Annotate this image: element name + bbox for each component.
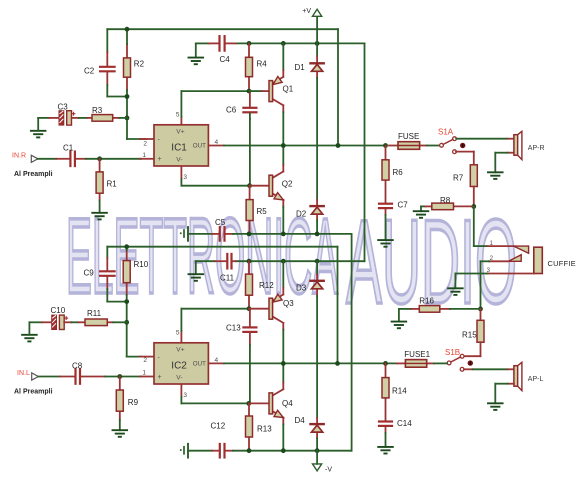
svg-text:R3: R3	[92, 106, 103, 115]
switch S1B	[445, 348, 473, 371]
svg-text:R10: R10	[134, 260, 149, 269]
wire IC2 V- to Q4 base node	[181, 397, 248, 404]
capacitor C7	[379, 200, 408, 215]
svg-text:C6: C6	[226, 105, 237, 114]
node R12 top	[247, 259, 252, 264]
node R15/R16/jack2	[478, 307, 483, 312]
ground (C4 ground)	[189, 43, 204, 64]
resistor R1	[96, 159, 117, 201]
node Q4 base / R13 / C13	[246, 401, 251, 406]
svg-text:Q2: Q2	[282, 180, 293, 189]
svg-text:IC2: IC2	[171, 361, 187, 372]
svg-text:AP-R: AP-R	[528, 145, 545, 152]
svg-text:C7: C7	[398, 200, 409, 209]
svg-text:C1: C1	[63, 143, 74, 152]
pin 3 (IC1 pin 3)	[181, 166, 187, 181]
svg-text:4: 4	[215, 357, 219, 364]
svg-text:2: 2	[143, 357, 147, 364]
capacitor C1	[56, 143, 86, 166]
node Q1 base / R4 / C6	[247, 89, 252, 94]
wire C6 bottom to Q2 base node	[249, 113, 251, 185]
svg-text:R14: R14	[392, 386, 407, 395]
wire C3 to ground	[38, 118, 49, 131]
transistor Q1	[269, 43, 294, 145]
node C2-R2 bottom	[125, 94, 130, 99]
polarity marker C5	[180, 227, 188, 241]
node OUT2-collectors	[281, 361, 286, 366]
svg-text:R13: R13	[257, 425, 272, 434]
svg-text:OUT: OUT	[193, 360, 206, 367]
wire R8 left	[421, 205, 426, 207]
headphone jack CUFFIE	[534, 247, 576, 273]
svg-text:C14: C14	[397, 419, 412, 428]
wire lower +V rail	[196, 260, 365, 262]
resistor R11	[78, 309, 113, 325]
svg-text:3: 3	[183, 392, 187, 399]
pin 4 (IC2 pin 4)	[208, 357, 224, 364]
wire IC1 V- to Q2 base node	[181, 179, 249, 186]
wire C3 left lead	[49, 117, 59, 119]
jack contact pin 1	[490, 241, 529, 253]
wire C2 bottom rail	[107, 96, 127, 98]
capacitor C9	[84, 247, 115, 302]
wire R16 left	[399, 308, 411, 310]
fuse FUSE1	[397, 350, 434, 367]
wire IC1 V+ to bias node	[181, 91, 249, 117]
transistor Q4	[269, 363, 293, 450]
ground (R8 ground)	[414, 206, 429, 217]
wire C10 to ground	[29, 322, 42, 335]
wire bottom rail left	[188, 450, 212, 452]
wire input to C1	[38, 158, 56, 160]
wire S1B to AP-L	[473, 368, 508, 370]
diode D1	[295, 56, 324, 78]
svg-text:Q4: Q4	[282, 399, 293, 408]
svg-text:C4: C4	[220, 55, 231, 64]
node OUT1-feedback	[336, 143, 341, 148]
svg-text:R15: R15	[462, 330, 477, 339]
wire S1A lower throw	[456, 152, 474, 165]
wire feedback rail (OUT to C2/R2)	[107, 29, 338, 145]
wire R2 top	[126, 29, 128, 44]
node R11 junction	[124, 320, 129, 325]
svg-text:V+: V+	[176, 128, 184, 135]
diode D4	[295, 416, 324, 438]
-V symbol	[313, 451, 333, 474]
wire Q2 base red	[250, 185, 269, 187]
ground (C10 ground)	[22, 335, 37, 342]
diode D3	[296, 274, 324, 296]
wire R11 to node	[113, 321, 126, 323]
svg-text:Al Preampli: Al Preampli	[14, 389, 53, 396]
wire C8 to pin1	[105, 376, 141, 378]
capacitor C6	[226, 91, 256, 114]
resistor R3	[87, 106, 119, 121]
ground (AP-R ground)	[488, 153, 503, 179]
wire C3-R3	[72, 117, 88, 119]
wire D3-D4	[316, 296, 318, 418]
wire AP-L bottom	[495, 383, 514, 385]
ground (jack ground)	[448, 274, 463, 295]
svg-text:5: 5	[176, 329, 180, 336]
svg-text:R1: R1	[107, 179, 118, 188]
node Q2 base / R5 / C6	[247, 183, 252, 188]
ground (R1 ground)	[92, 200, 107, 219]
wire jack pin 3 red	[487, 268, 534, 274]
op-amp IC1	[154, 125, 208, 166]
svg-text:Q1: Q1	[283, 85, 294, 94]
resistor R9	[116, 377, 138, 420]
resistor R14	[382, 363, 407, 420]
resistor R7	[453, 165, 477, 187]
ground (AP-L ground)	[488, 384, 503, 410]
svg-text:R11: R11	[87, 309, 102, 318]
wire AP-L top red	[508, 368, 514, 370]
capacitor C2	[84, 29, 115, 96]
wire mid rail left	[188, 233, 212, 235]
wire AP-R bottom	[495, 152, 514, 154]
wire D3 top	[316, 261, 318, 274]
wire C9 bottom rail	[107, 301, 126, 303]
speaker AP-L	[514, 362, 544, 390]
wire jack pin3 to ground	[455, 273, 487, 275]
ground (C11 ground)	[189, 261, 204, 281]
svg-text:V-: V-	[176, 374, 182, 381]
node D2 anode	[315, 232, 320, 237]
wire OUT2 line	[224, 362, 397, 364]
node rail2-R10	[124, 244, 129, 249]
switch S1A	[438, 128, 465, 154]
wire +V to D1	[316, 16, 318, 43]
wire R3 to node	[119, 117, 127, 119]
node rail1-R2	[125, 27, 130, 32]
svg-text:+: +	[158, 156, 162, 163]
svg-text:D1: D1	[295, 63, 306, 72]
capacitor C4	[209, 36, 236, 64]
svg-text:C2: C2	[84, 67, 95, 76]
svg-text:C9: C9	[84, 268, 95, 277]
wire C13 bottom red	[249, 333, 251, 345]
wire +V rail	[196, 43, 365, 261]
node D4 anode	[315, 448, 320, 453]
svg-text:C10: C10	[51, 306, 66, 315]
wire C13 bottom to Q4 base node	[249, 345, 251, 403]
pin 1 (IC2 pin 1)	[140, 370, 154, 377]
svg-text:V+: V+	[176, 346, 184, 353]
svg-text:1: 1	[142, 370, 146, 377]
svg-text:D4: D4	[295, 416, 306, 425]
node C5-R5	[247, 232, 252, 237]
svg-text:R5: R5	[257, 207, 268, 216]
wire Q4 base red	[249, 402, 269, 404]
wire R10 bottom	[126, 295, 128, 302]
svg-text:D3: D3	[296, 284, 307, 293]
wire Q1 base red	[262, 90, 269, 92]
wire C1 to pin1	[86, 158, 141, 160]
node R7/R8	[471, 204, 476, 209]
resistor R8	[426, 196, 474, 210]
resistor R12	[246, 261, 275, 309]
op-amp IC2	[154, 343, 208, 384]
wire R10 top	[126, 247, 128, 250]
jack contact pin 2	[490, 255, 522, 262]
wire D2 bottom	[316, 220, 318, 234]
svg-text:R2: R2	[134, 60, 145, 69]
node Q1 emitter top	[281, 41, 286, 46]
capacitor C8	[60, 361, 105, 383]
wire jack pin2 down	[481, 261, 490, 309]
wire D1 top	[316, 43, 318, 56]
svg-text:C8: C8	[72, 361, 83, 370]
node R1 junction	[97, 156, 102, 161]
svg-text:R16: R16	[419, 297, 434, 306]
wire C10 left lead	[42, 321, 52, 323]
pin 5 (IC2 pin 5)	[176, 329, 182, 342]
svg-text:R4: R4	[257, 60, 268, 69]
svg-text:C5: C5	[215, 218, 226, 227]
wire Q3 base red	[249, 308, 269, 310]
svg-text:IN.L: IN.L	[17, 370, 30, 377]
pin 1 (IC1 pin 1)	[140, 152, 154, 159]
+V symbol	[302, 8, 321, 16]
svg-text:R8: R8	[440, 196, 451, 205]
label Al Preampli (R)	[14, 171, 53, 178]
svg-text:C3: C3	[58, 102, 69, 111]
node C9-R10 bottom	[124, 299, 129, 304]
resistor R13	[246, 403, 273, 450]
wire D1-D2	[316, 78, 318, 200]
svg-text:-V: -V	[325, 467, 332, 474]
speaker AP-R	[514, 131, 545, 159]
svg-text:IC1: IC1	[171, 143, 187, 154]
pin 3 (IC2 pin 3)	[181, 384, 187, 399]
ground (C7 ground)	[378, 215, 393, 247]
wire R3 node vertical	[127, 97, 146, 140]
input terminal IN.R	[12, 152, 38, 162]
resistor R16	[411, 297, 450, 313]
wire feedback rail 2 (OUT2 to C9/R10)	[107, 247, 337, 364]
capacitor C14	[379, 419, 412, 433]
svg-text:Q3: Q3	[283, 299, 294, 308]
wire fuse to switch	[427, 145, 440, 147]
svg-text:+V: +V	[302, 8, 311, 15]
node OUT1-R6	[383, 143, 388, 148]
transistor Q3	[269, 261, 294, 363]
wire OUT1 line	[224, 145, 386, 147]
wire C10-R11	[64, 321, 78, 323]
node R9 junction	[117, 374, 122, 379]
resistor R15	[462, 309, 484, 342]
node Q3 base / R12 / C13	[247, 306, 252, 311]
watermark ELETTRONICA AUDIO	[66, 195, 517, 329]
svg-text:OUT: OUT	[193, 142, 206, 149]
wire S1B lower throw	[464, 368, 473, 370]
svg-text:S1B: S1B	[445, 348, 460, 357]
svg-text:R6: R6	[393, 168, 404, 177]
svg-text:1: 1	[142, 152, 146, 159]
resistor R2	[124, 44, 145, 90]
ground (C3 ground)	[31, 131, 46, 138]
resistor R4	[246, 43, 268, 91]
wire Q1 base	[249, 90, 262, 92]
svg-text:FUSE1: FUSE1	[404, 350, 430, 359]
svg-text:+: +	[158, 374, 162, 381]
svg-text:AP-L: AP-L	[528, 376, 544, 383]
wire R7 node to jack pin1	[474, 206, 488, 246]
svg-text:CUFFIE: CUFFIE	[548, 259, 577, 268]
svg-text:S1A: S1A	[438, 128, 454, 137]
capacitor C5	[212, 218, 233, 241]
node Q3 emitter top	[281, 259, 286, 264]
wire R15 bottom	[464, 342, 480, 356]
svg-text:V-: V-	[176, 156, 182, 163]
wire R16 to node	[450, 308, 481, 310]
node Q4 emitter bottom	[281, 448, 286, 453]
svg-text:IN.R: IN.R	[12, 152, 26, 159]
wire bottom rail	[233, 450, 352, 452]
polarity marker C12	[180, 444, 188, 458]
svg-text:FUSE: FUSE	[398, 132, 419, 141]
svg-text:C11: C11	[220, 273, 235, 282]
capacitor C11	[215, 254, 236, 282]
diode D2	[296, 200, 324, 221]
ground (C14 ground)	[378, 433, 393, 454]
resistor R5	[246, 186, 267, 234]
wire R7 bottom red	[473, 187, 475, 207]
wire mid rail	[233, 234, 352, 451]
node OUT2-R14	[383, 361, 388, 366]
svg-text:2: 2	[143, 140, 147, 147]
transistor Q2	[269, 146, 293, 234]
wire IC2 V+ to bias node	[181, 309, 249, 331]
wire input to C8	[38, 376, 60, 378]
capacitor C13	[226, 309, 256, 333]
resistor R6	[382, 146, 403, 204]
pin 4 (IC1 pin 4)	[208, 139, 224, 146]
svg-text:C12: C12	[211, 422, 226, 431]
node OUT1-collectors	[281, 143, 286, 148]
ground (R16 ground)	[392, 309, 407, 328]
wire R2 bottom	[126, 90, 128, 97]
input terminal IN.L	[17, 370, 38, 380]
svg-text:4: 4	[215, 139, 219, 146]
svg-text:R7: R7	[453, 174, 464, 183]
node C12-R13	[247, 448, 252, 453]
wire jack pin2 red	[489, 260, 509, 262]
node OUT2-feedback	[335, 361, 340, 366]
svg-text:C13: C13	[226, 323, 241, 332]
fuse FUSE	[389, 132, 427, 149]
svg-text:D2: D2	[296, 210, 307, 219]
wire S1A to AP-R	[456, 138, 507, 140]
ground (R9 ground)	[113, 420, 128, 437]
capacitor C3 (polarized)	[58, 102, 75, 125]
svg-text:R9: R9	[128, 398, 139, 407]
capacitor C10 (polarized)	[51, 306, 68, 330]
resistor R10	[123, 250, 149, 295]
svg-text:Al Preampli: Al Preampli	[14, 171, 53, 178]
node +V/D1	[315, 41, 320, 46]
wire R11 node vertical	[127, 302, 141, 357]
wire jack pin1 red	[487, 245, 513, 247]
pin 5 (IC1 pin 5)	[176, 111, 182, 124]
pin 2 (IC1 pin 2)	[140, 139, 154, 147]
wire fuse1 to switch	[434, 362, 447, 364]
node R3 junction	[125, 116, 130, 121]
wire D4 bottom	[316, 438, 318, 451]
svg-text:3: 3	[183, 174, 187, 181]
node Q2 emitter bottom	[281, 232, 286, 237]
pin 2 (IC2 pin 2)	[140, 357, 154, 364]
capacitor C12	[211, 422, 234, 458]
node R4 top	[247, 41, 252, 46]
wire AP-R top red	[508, 138, 514, 140]
node D3 top	[315, 259, 320, 264]
svg-text:5: 5	[176, 111, 180, 118]
svg-text:R12: R12	[259, 281, 274, 290]
label Al Preampli (L)	[14, 389, 53, 396]
